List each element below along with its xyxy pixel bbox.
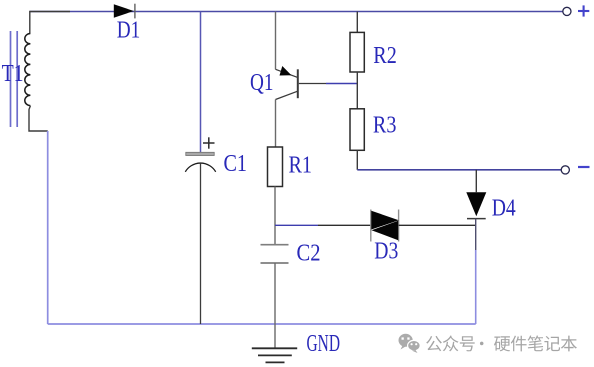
resistor R1 (268, 147, 283, 187)
wire left vertical (47, 131, 49, 324)
node plus terminal (563, 7, 571, 15)
wire Q1 base to divider: dark then blue (299, 83, 326, 85)
diode D4 (466, 192, 486, 216)
wire D4 down to bottom bus (475, 219, 477, 250)
resistor R3 (350, 109, 364, 151)
diode D4 lead (475, 170, 477, 192)
svg-text:T1: T1 (2, 61, 24, 87)
wire Q1 collector lead from top (275, 12, 277, 70)
svg-text:C1: C1 (224, 151, 248, 177)
wire T1 top lead dark segment (30, 12, 70, 34)
capacitor C1 curved plate (185, 163, 215, 172)
label plus (578, 10, 589, 12)
wire C2 to ground (274, 263, 276, 348)
watermark logo eye dots (402, 337, 404, 339)
svg-text:R2: R2 (373, 43, 397, 69)
wire D3 to D4 column (399, 224, 476, 226)
wire R1 to C2 (274, 187, 276, 245)
svg-text:D3: D3 (374, 238, 398, 264)
label minus (578, 166, 590, 168)
wire bottom horizontal (48, 323, 476, 325)
diode D1 (114, 4, 134, 17)
transformer T1 core lines (10, 31, 12, 127)
ground (252, 347, 297, 349)
wire R2-R3 link (356, 72, 358, 109)
watermark logo (399, 334, 421, 353)
wire C1 branch vertical blue (200, 12, 202, 153)
wire branch to D3 (dark blue then dark) (275, 224, 318, 226)
wire minus bus (357, 169, 561, 171)
transistor Q1 (276, 69, 298, 77)
svg-text:Q1: Q1 (250, 70, 274, 96)
watermark text (426, 335, 577, 351)
svg-text:D1: D1 (117, 17, 141, 43)
wire T1 bottom lead (29, 106, 48, 131)
node minus terminal (561, 166, 569, 174)
svg-text:R3: R3 (373, 112, 397, 138)
transformer T1 winding (25, 34, 31, 106)
capacitor C1 plus sign (203, 142, 215, 144)
svg-text:R1: R1 (289, 152, 313, 178)
wire top horizontal bus (30, 11, 563, 13)
svg-text:C2: C2 (297, 240, 321, 266)
resistor R2 lead (356, 12, 358, 33)
diode D3 (bidirectional pair) (370, 210, 372, 242)
capacitor C2 (261, 244, 289, 246)
wire Q1 emitter lead down (275, 100, 277, 148)
capacitor C1 top plate (186, 152, 214, 155)
svg-text:GND: GND (307, 331, 341, 357)
resistor R2 (350, 32, 364, 72)
svg-text:D4: D4 (492, 196, 516, 222)
wire C1 bottom lead (200, 163, 202, 324)
wire R3 bottom lead (356, 150, 358, 170)
